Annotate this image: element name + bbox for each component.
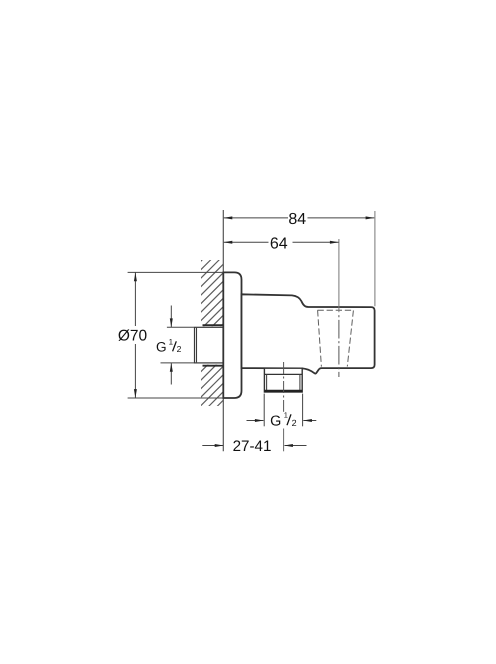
outlet nipple (bottom G1/2) <box>264 368 302 392</box>
svg-text:1: 1 <box>169 337 174 346</box>
svg-text:2: 2 <box>292 418 297 428</box>
svg-text:Ø70: Ø70 <box>118 328 148 345</box>
dimension 84 <box>224 217 375 219</box>
body with holder <box>242 294 375 373</box>
extension line right (84) <box>374 211 376 306</box>
dimension G1/2 left <box>161 306 195 385</box>
svg-text:84: 84 <box>288 211 306 228</box>
wall hatching <box>200 238 224 432</box>
svg-text:27-41: 27-41 <box>233 438 272 455</box>
dimension 27-41 <box>202 445 306 447</box>
svg-text:2: 2 <box>177 344 182 354</box>
escutcheon flange <box>223 272 241 398</box>
outlet centerline <box>283 362 285 412</box>
dimension diameter 70 <box>128 272 224 398</box>
svg-text:G: G <box>156 340 167 355</box>
dimension G1/2 bottom <box>247 394 317 427</box>
dimension 64 <box>224 241 339 243</box>
svg-text:1: 1 <box>284 411 288 420</box>
holder centerline <box>338 239 340 312</box>
holder cone hidden lines (dashed) <box>318 310 354 366</box>
wall surface line / extension line <box>222 210 224 451</box>
wall hole heavy edges <box>203 324 224 326</box>
wall hole clearance for inlet <box>201 326 224 365</box>
svg-text:G: G <box>270 414 281 430</box>
svg-text:64: 64 <box>270 235 288 252</box>
inlet nipple (wall supply G1/2) <box>195 327 224 363</box>
